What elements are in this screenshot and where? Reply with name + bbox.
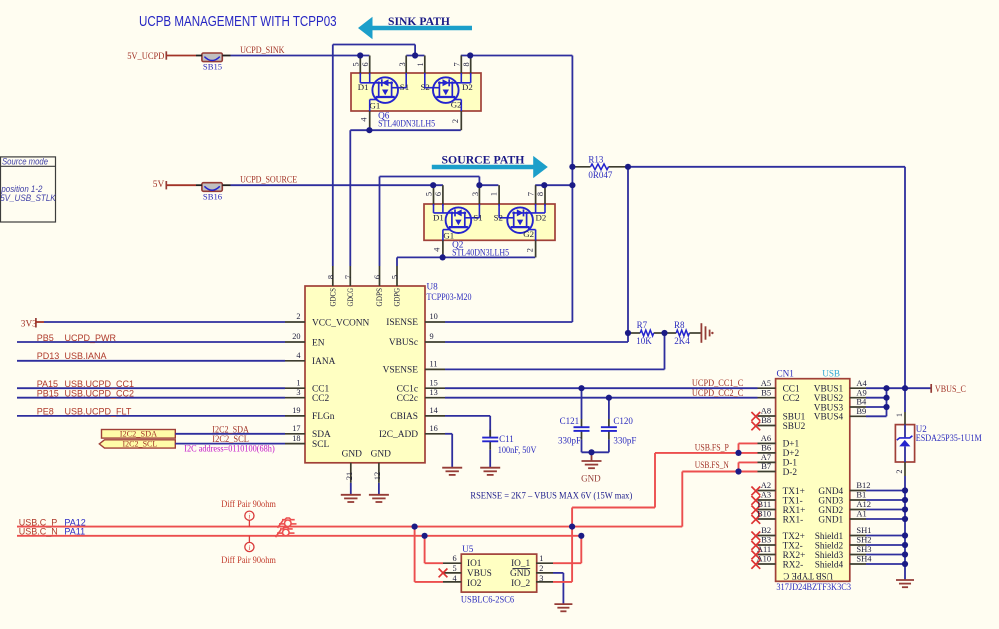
svg-text:Diff Pair 90ohm: Diff Pair 90ohm: [221, 499, 276, 509]
svg-text:5V_UCPD: 5V_UCPD: [127, 52, 164, 62]
svg-text:3: 3: [398, 62, 407, 66]
svg-text:18: 18: [292, 434, 300, 443]
svg-text:GND2: GND2: [818, 506, 843, 516]
svg-text:USB.FS_N: USB.FS_N: [695, 460, 729, 470]
svg-text:GDPS: GDPS: [374, 288, 384, 307]
svg-text:i: i: [248, 512, 250, 521]
svg-text:3: 3: [539, 574, 543, 583]
svg-text:A3: A3: [761, 490, 771, 500]
svg-text:CC1: CC1: [312, 384, 330, 394]
svg-text:A6: A6: [761, 433, 771, 443]
svg-text:PB5: PB5: [37, 333, 54, 343]
svg-text:3: 3: [471, 192, 480, 196]
svg-text:UCPB MANAGEMENT WITH TCPP03: UCPB MANAGEMENT WITH TCPP03: [139, 13, 337, 30]
svg-text:R8: R8: [674, 320, 685, 330]
svg-text:2: 2: [539, 564, 543, 573]
svg-text:D+2: D+2: [783, 449, 800, 459]
svg-text:IO2: IO2: [467, 579, 482, 589]
svg-text:17: 17: [292, 424, 300, 433]
svg-text:U5: U5: [462, 544, 474, 554]
svg-text:19: 19: [292, 406, 300, 415]
svg-text:5: 5: [452, 564, 456, 573]
svg-text:I2C address=0110100(68h): I2C address=0110100(68h): [184, 443, 274, 453]
svg-text:IO_1: IO_1: [511, 559, 530, 569]
svg-text:VBUSc: VBUSc: [389, 338, 418, 348]
svg-text:3V3: 3V3: [21, 319, 37, 329]
svg-text:SBU2: SBU2: [783, 422, 806, 432]
svg-text:GND: GND: [510, 569, 530, 579]
svg-text:B3: B3: [761, 535, 771, 545]
svg-text:B2: B2: [761, 525, 771, 535]
svg-text:I2C2_SDA: I2C2_SDA: [120, 429, 158, 439]
svg-text:D2: D2: [536, 212, 547, 222]
svg-text:SINK PATH: SINK PATH: [388, 16, 450, 28]
svg-text:10K: 10K: [636, 336, 652, 346]
svg-text:2: 2: [895, 469, 904, 473]
svg-text:TX1+: TX1+: [783, 487, 805, 497]
svg-text:0R047: 0R047: [588, 170, 613, 180]
svg-text:UCPD_CC1_C: UCPD_CC1_C: [692, 378, 743, 388]
svg-text:SBU1: SBU1: [783, 412, 806, 422]
svg-text:Shield2: Shield2: [815, 541, 844, 551]
svg-text:5: 5: [391, 275, 400, 279]
svg-text:15: 15: [430, 378, 438, 387]
svg-text:TCPP03-M20: TCPP03-M20: [427, 292, 472, 302]
svg-text:A12: A12: [856, 499, 871, 509]
svg-text:2: 2: [525, 248, 534, 252]
svg-text:B10: B10: [757, 509, 771, 519]
svg-text:RX1+: RX1+: [783, 506, 806, 516]
svg-text:6: 6: [361, 62, 370, 66]
svg-text:VBUS: VBUS: [467, 569, 492, 579]
svg-text:CBIAS: CBIAS: [390, 412, 418, 422]
svg-text:I2C2_SDA: I2C2_SDA: [212, 424, 249, 434]
svg-text:5: 5: [352, 62, 361, 66]
svg-text:317JD24BZTF3K3C3: 317JD24BZTF3K3C3: [776, 583, 851, 593]
svg-text:G1: G1: [370, 101, 381, 111]
svg-text:USB TYPE C: USB TYPE C: [783, 570, 833, 580]
svg-text:A2: A2: [761, 480, 771, 490]
svg-text:USB: USB: [822, 369, 840, 379]
svg-text:TX2+: TX2+: [783, 532, 805, 542]
svg-text:Source mode: Source mode: [2, 156, 48, 166]
svg-text:SH4: SH4: [856, 554, 872, 564]
svg-text:A10: A10: [757, 554, 772, 564]
svg-text:CC1c: CC1c: [397, 384, 418, 394]
svg-text:A5: A5: [761, 378, 771, 388]
svg-text:SOURCE PATH: SOURCE PATH: [442, 152, 526, 166]
svg-text:PA11: PA11: [64, 527, 85, 537]
svg-text:330pF: 330pF: [558, 436, 581, 446]
svg-text:I2C_ADD: I2C_ADD: [379, 430, 418, 440]
svg-text:B5: B5: [761, 387, 771, 397]
svg-text:5: 5: [425, 192, 434, 196]
svg-text:USB.UCPD_FLT: USB.UCPD_FLT: [65, 407, 132, 417]
svg-text:B9: B9: [856, 406, 866, 416]
svg-text:20: 20: [292, 332, 300, 341]
svg-text:PD13: PD13: [37, 351, 60, 361]
svg-text:6: 6: [434, 192, 443, 196]
svg-text:5V: 5V: [153, 180, 165, 190]
svg-text:7: 7: [453, 62, 462, 66]
svg-text:3: 3: [296, 388, 300, 397]
svg-text:16: 16: [430, 424, 438, 433]
svg-text:D+1: D+1: [783, 440, 800, 450]
svg-text:GND1: GND1: [818, 515, 843, 525]
svg-text:TX2-: TX2-: [783, 541, 803, 551]
svg-text:U8: U8: [427, 281, 439, 291]
svg-text:i: i: [248, 543, 250, 552]
svg-text:D1: D1: [358, 82, 369, 92]
svg-text:B7: B7: [761, 461, 771, 471]
svg-text:21: 21: [345, 472, 354, 480]
svg-text:STL40DN3LLH5: STL40DN3LLH5: [452, 248, 509, 258]
svg-text:B12: B12: [856, 480, 870, 490]
svg-text:SDA: SDA: [312, 430, 331, 440]
svg-text:GND: GND: [342, 449, 363, 459]
svg-text:330pF: 330pF: [613, 436, 636, 446]
svg-text:ESDA25P35-1U1M: ESDA25P35-1U1M: [916, 433, 982, 443]
svg-text:GND4: GND4: [818, 487, 843, 497]
svg-text:UCPD_SINK: UCPD_SINK: [240, 46, 285, 56]
svg-text:B6: B6: [761, 443, 771, 453]
svg-text:A1: A1: [856, 509, 866, 519]
svg-text:8: 8: [326, 275, 335, 279]
svg-text:SB16: SB16: [203, 191, 223, 201]
svg-text:7: 7: [344, 275, 353, 279]
svg-text:5V_USB_STLK: 5V_USB_STLK: [0, 193, 56, 203]
svg-text:UCPD_PWR: UCPD_PWR: [65, 333, 117, 343]
svg-text:8: 8: [536, 192, 545, 196]
svg-text:1: 1: [416, 62, 425, 66]
svg-text:10: 10: [430, 312, 438, 321]
svg-text:S2: S2: [421, 82, 430, 92]
svg-text:IO1: IO1: [467, 559, 482, 569]
svg-text:B11: B11: [757, 499, 771, 509]
svg-text:R13: R13: [588, 155, 604, 165]
svg-text:S1: S1: [473, 212, 482, 222]
svg-text:8: 8: [462, 62, 471, 66]
svg-text:Shield4: Shield4: [815, 560, 844, 570]
svg-text:I2C2_SCL: I2C2_SCL: [123, 438, 158, 448]
svg-text:GND: GND: [371, 449, 392, 459]
svg-text:GDPG: GDPG: [392, 288, 402, 307]
svg-text:C121: C121: [560, 416, 580, 426]
svg-text:RSENSE = 2K7 – VBUS MAX 6V (15: RSENSE = 2K7 – VBUS MAX 6V (15W max): [470, 491, 632, 502]
svg-text:B1: B1: [856, 490, 866, 500]
svg-text:VBUS1: VBUS1: [814, 385, 844, 395]
svg-text:S1: S1: [400, 82, 409, 92]
svg-text:G2: G2: [523, 229, 534, 239]
svg-text:1: 1: [539, 554, 543, 563]
svg-text:9: 9: [430, 332, 434, 341]
svg-text:2K4: 2K4: [674, 336, 690, 346]
svg-text:C120: C120: [613, 416, 633, 426]
svg-text:B8: B8: [761, 415, 771, 425]
svg-text:GND3: GND3: [818, 496, 843, 506]
svg-text:FLGn: FLGn: [312, 412, 335, 422]
svg-text:VBUS_C: VBUS_C: [935, 384, 966, 394]
svg-text:100nF, 50V: 100nF, 50V: [498, 445, 537, 455]
svg-text:IO_2: IO_2: [511, 579, 530, 589]
svg-text:UCPD_CC2_C: UCPD_CC2_C: [692, 388, 743, 398]
svg-text:VBUS4: VBUS4: [814, 413, 844, 423]
svg-text:6: 6: [452, 554, 456, 563]
svg-text:14: 14: [430, 406, 439, 415]
svg-text:RX2-: RX2-: [783, 560, 804, 570]
svg-text:11: 11: [430, 360, 438, 369]
svg-text:12: 12: [373, 472, 382, 480]
svg-text:STL40DN3LLH5: STL40DN3LLH5: [378, 118, 435, 128]
svg-text:C11: C11: [499, 434, 514, 444]
svg-text:USB.UCPD_CC2: USB.UCPD_CC2: [65, 388, 135, 398]
svg-text:6: 6: [373, 275, 382, 279]
svg-text:EN: EN: [312, 338, 325, 348]
svg-text:VSENSE: VSENSE: [383, 366, 419, 376]
svg-text:USBLC6-2SC6: USBLC6-2SC6: [461, 594, 515, 604]
svg-text:S2: S2: [494, 212, 503, 222]
svg-text:UCPD_SOURCE: UCPD_SOURCE: [240, 176, 297, 186]
svg-text:RX2+: RX2+: [783, 551, 806, 561]
svg-text:CC2: CC2: [312, 394, 330, 404]
svg-text:2: 2: [451, 119, 460, 123]
svg-text:CC1: CC1: [783, 385, 800, 395]
svg-text:USB.C_N: USB.C_N: [19, 527, 58, 537]
svg-text:GDCG: GDCG: [345, 288, 355, 307]
svg-text:1: 1: [490, 192, 499, 196]
svg-text:13: 13: [430, 388, 438, 397]
svg-text:CN1: CN1: [777, 369, 795, 379]
svg-text:TX1-: TX1-: [783, 496, 803, 506]
svg-text:Diff Pair 90ohm: Diff Pair 90ohm: [221, 555, 276, 565]
svg-text:Shield3: Shield3: [815, 551, 844, 561]
svg-text:IANA: IANA: [312, 357, 336, 367]
svg-text:A4: A4: [856, 378, 867, 388]
svg-text:USB.IANA: USB.IANA: [65, 351, 107, 361]
svg-text:ISENSE: ISENSE: [386, 318, 418, 328]
svg-text:A8: A8: [761, 406, 771, 416]
svg-text:SH1: SH1: [856, 525, 871, 535]
svg-text:VCC_VCONN: VCC_VCONN: [312, 318, 370, 328]
svg-text:PE8: PE8: [37, 407, 54, 417]
svg-text:CC2c: CC2c: [397, 394, 418, 404]
svg-text:SCL: SCL: [312, 440, 329, 450]
svg-text:CC2: CC2: [783, 394, 800, 404]
svg-text:A11: A11: [757, 544, 771, 554]
svg-text:GDCS: GDCS: [327, 288, 337, 307]
svg-text:SB15: SB15: [203, 62, 223, 72]
svg-text:1: 1: [296, 378, 300, 387]
svg-text:GND: GND: [581, 473, 601, 483]
svg-text:1: 1: [895, 413, 904, 417]
svg-text:D1: D1: [433, 212, 444, 222]
svg-text:D-2: D-2: [783, 468, 798, 478]
svg-text:SH3: SH3: [856, 544, 871, 554]
svg-text:D2: D2: [462, 82, 473, 92]
svg-text:2: 2: [296, 312, 300, 321]
svg-text:PB15: PB15: [37, 388, 59, 398]
svg-text:SH2: SH2: [856, 535, 871, 545]
svg-text:RX1-: RX1-: [783, 515, 804, 525]
svg-text:7: 7: [527, 192, 536, 196]
svg-text:USB.FS_P: USB.FS_P: [695, 442, 729, 452]
svg-text:R7: R7: [637, 320, 648, 330]
svg-text:G2: G2: [451, 99, 462, 109]
svg-text:Shield1: Shield1: [815, 532, 844, 542]
